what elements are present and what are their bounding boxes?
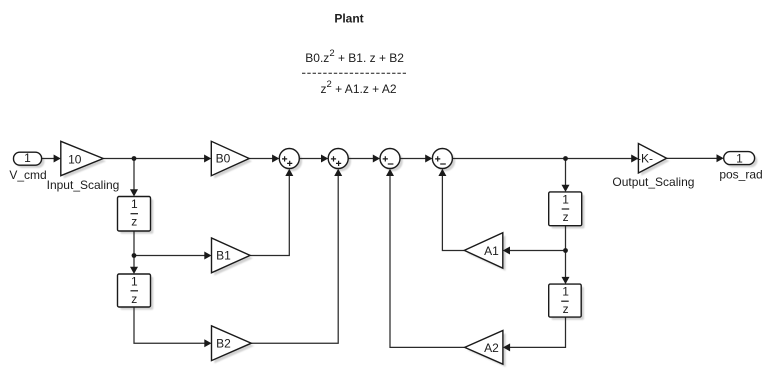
unit delay 1 <box>118 197 151 232</box>
unit delay 2 fraction bar <box>131 290 139 292</box>
arrow into sum 4 <box>425 155 432 163</box>
svg-text:Input_Scaling: Input_Scaling <box>47 178 120 192</box>
arrow into sum 3 <box>373 155 380 163</box>
gain B2 <box>212 326 252 361</box>
inport 1 V_cmd <box>14 152 42 165</box>
gain A1 <box>464 233 503 268</box>
arrow into sum 2 <box>321 155 328 163</box>
wire unit delay 3 to junction and A1 <box>508 226 566 251</box>
gain Output_Scaling <box>638 144 666 174</box>
svg-text:B0.z2 + B1. z + B2: B0.z2 + B1. z + B2 <box>305 48 404 65</box>
gain B1 <box>212 238 251 273</box>
sum 2 plus left <box>331 156 336 161</box>
sum 1 plus bottom <box>287 161 292 166</box>
svg-text:z: z <box>131 292 137 306</box>
wire junction down to unit delay 4 <box>565 251 567 280</box>
junction node above unit delay 4 <box>563 248 568 253</box>
arrow into B0 <box>204 155 211 163</box>
wire junction down to unit delay 2 <box>133 256 135 270</box>
wire unit delay 4 to A2 <box>508 317 566 347</box>
svg-text:z: z <box>563 210 569 224</box>
sum 2 plus bottom <box>336 161 341 166</box>
sum 4 plus left <box>435 156 440 161</box>
sum 1 plus left <box>282 156 287 161</box>
arrow into sum 1 <box>272 155 279 163</box>
svg-text:-K-: -K- <box>637 152 653 166</box>
unit delay 1 fraction bar <box>131 213 139 215</box>
wire inport to Input_Scaling <box>42 158 56 160</box>
unit delay 4 fraction bar <box>561 300 569 302</box>
wire Input_Scaling to B0 <box>103 158 206 160</box>
wire B1 to sum 1 bottom <box>250 174 289 256</box>
junction node above unit delay 2 <box>132 253 137 258</box>
sum 2 <box>328 149 348 169</box>
arrow into unit delay 1 <box>130 189 138 196</box>
svg-text:A2: A2 <box>484 341 499 355</box>
gain A2 <box>465 331 503 365</box>
wire A1 to sum 4 bottom <box>442 174 464 251</box>
arrow into A2 <box>503 343 510 351</box>
sum 3 plus left <box>383 156 388 161</box>
arrow into unit delay 2 <box>130 267 138 274</box>
arrow into Input_Scaling <box>54 155 61 163</box>
wire sum 3 to sum 4 <box>400 158 427 160</box>
arrow into unit delay 3 <box>562 185 570 192</box>
sum signs <box>282 156 446 166</box>
svg-text:1: 1 <box>131 274 138 288</box>
wire unit delay 2 to B2 <box>134 307 207 343</box>
sum 4 <box>432 149 452 169</box>
arrow into Output_Scaling <box>631 155 638 163</box>
unit delay 3 <box>549 192 582 226</box>
svg-text:V_cmd: V_cmd <box>9 168 46 182</box>
sum 4 minus bottom <box>440 163 446 165</box>
gain Input_Scaling <box>61 141 103 175</box>
wire sum 2 to sum 3 <box>348 158 375 160</box>
arrow into B1 <box>204 252 211 260</box>
unit delay 2 <box>118 274 151 307</box>
sum 1 <box>279 149 299 169</box>
svg-text:Plant: Plant <box>334 12 363 26</box>
wire branch down to unit delay 3 <box>565 159 567 188</box>
block drop shadows <box>16 144 757 367</box>
wire branch down to unit delay 1 <box>133 159 135 192</box>
arrow into sum 2 bottom <box>334 169 342 176</box>
arrowheads <box>54 154 724 351</box>
arrow into unit delay 4 <box>562 277 570 284</box>
svg-text:A1: A1 <box>484 244 499 258</box>
arrow into sum 4 bottom <box>438 169 446 176</box>
wire Output_Scaling to outport <box>667 157 718 159</box>
unit delay 3 fraction bar <box>562 208 570 210</box>
wire B2 to sum 2 bottom <box>251 174 338 343</box>
junction node after Input_Scaling <box>132 156 137 161</box>
svg-text:z: z <box>563 302 569 316</box>
transfer function divider line <box>302 72 406 74</box>
wire sum 4 to Output_Scaling <box>452 158 633 160</box>
svg-text:Output_Scaling: Output_Scaling <box>612 175 694 189</box>
svg-text:1: 1 <box>736 152 743 166</box>
unit delay 4 <box>549 284 582 317</box>
junction node after sum 4 <box>563 156 568 161</box>
gain B0 <box>211 141 249 175</box>
svg-text:10: 10 <box>68 152 82 166</box>
svg-text:1: 1 <box>131 197 138 211</box>
wire A2 to sum 3 bottom <box>390 174 465 347</box>
wire sum 1 to sum 2 <box>299 158 323 160</box>
arrow into sum 3 bottom <box>386 169 394 176</box>
arrow into sum 1 bottom <box>285 169 293 176</box>
blocks <box>14 141 755 364</box>
arrow into A1 <box>503 247 510 255</box>
svg-text:pos_rad: pos_rad <box>719 167 762 181</box>
svg-text:1: 1 <box>562 192 569 206</box>
svg-text:z: z <box>131 215 137 229</box>
arrow into B2 <box>204 339 211 347</box>
svg-text:1: 1 <box>562 285 569 299</box>
outport 1 pos_rad <box>724 152 755 165</box>
svg-text:z2 + A1.z + A2: z2 + A1.z + A2 <box>321 79 397 96</box>
wire B0 to sum 1 <box>249 158 274 160</box>
arrow into outport <box>717 154 724 162</box>
svg-text:B2: B2 <box>216 337 231 351</box>
wire unit delay 1 to junction and B1 <box>134 231 207 256</box>
svg-text:B1: B1 <box>216 249 231 263</box>
sum 3 minus bottom <box>388 163 394 165</box>
svg-text:B0: B0 <box>216 152 231 166</box>
sum 3 <box>380 149 400 169</box>
svg-text:1: 1 <box>24 151 31 165</box>
